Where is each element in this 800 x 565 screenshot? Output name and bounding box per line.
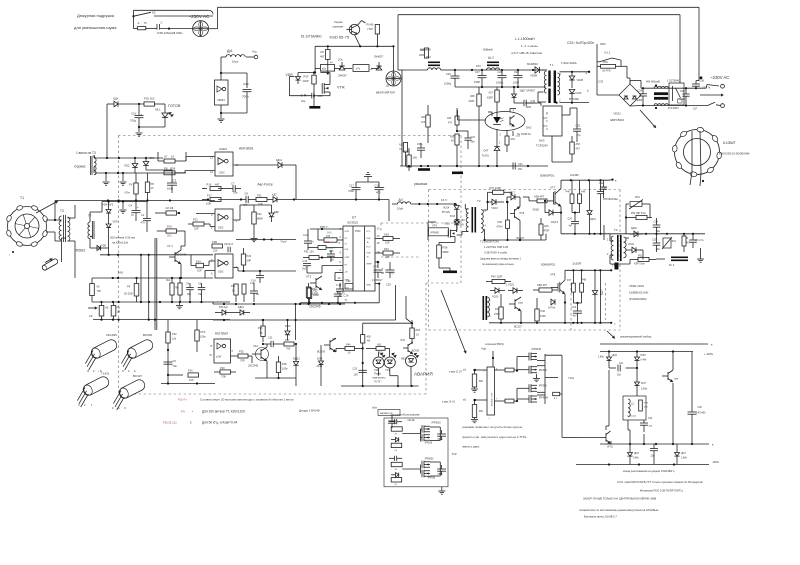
wire mains second bbox=[398, 14, 680, 16]
diode VD2 bbox=[124, 158, 138, 173]
label cap value bbox=[157, 31, 183, 35]
toroid leads bbox=[690, 172, 704, 186]
svg-text:JN400Т: JN400Т bbox=[338, 75, 347, 78]
svg-text:DIS: DIS bbox=[345, 249, 349, 251]
label TGR bbox=[569, 376, 575, 380]
svg-text:1 VD21: 1 VD21 bbox=[506, 284, 515, 287]
svg-text:Р13: Р13 bbox=[193, 218, 198, 222]
wire bbox=[338, 302, 340, 304]
wire bbox=[307, 266, 343, 274]
dashed box power left bbox=[428, 190, 430, 331]
resistor R20 K9 bbox=[399, 143, 408, 167]
svg-text:2SC945: 2SC945 bbox=[309, 305, 321, 309]
label 400-900mkF bbox=[646, 80, 660, 83]
label raskachka bbox=[414, 182, 427, 186]
dashed box power top bbox=[429, 189, 621, 191]
capacitor C16 bbox=[372, 265, 385, 283]
capacitor C17 bbox=[348, 182, 361, 200]
svg-text:VD14: VD14 bbox=[443, 207, 450, 210]
svg-text:Р32 1К2: Р32 1К2 bbox=[144, 97, 155, 101]
capacitor C27 bbox=[474, 70, 487, 87]
svg-text:Д: Д bbox=[546, 111, 548, 115]
svg-text:470Н: 470Н bbox=[497, 226, 503, 229]
zener VD4 8V1 bbox=[102, 202, 114, 222]
svg-text:L.1-1500мкН: L.1-1500мкН bbox=[515, 37, 535, 41]
note golovka bbox=[579, 508, 659, 512]
svg-text:220Р: 220Р bbox=[303, 79, 309, 83]
label ~230V AC bbox=[189, 14, 210, 19]
svg-text:VТ7: VТ7 bbox=[550, 186, 556, 190]
label 1 vitok na T3 bbox=[76, 151, 96, 155]
svg-text:470Р: 470Р bbox=[494, 313, 500, 316]
wire bbox=[401, 70, 403, 166]
svg-text:ТСР224У: ТСР224У bbox=[536, 144, 548, 148]
wire bbox=[538, 92, 546, 102]
wire bus17 bbox=[438, 487, 445, 494]
wire bbox=[621, 66, 630, 84]
label VD01 bbox=[629, 284, 648, 301]
switch ac2 bbox=[706, 102, 721, 105]
varistor 161V a bbox=[629, 196, 643, 209]
svg-text:ОЗ/3: ОЗ/3 bbox=[218, 271, 224, 274]
svg-text:нОм: нОм bbox=[372, 407, 377, 410]
svg-text:1М: 1М bbox=[117, 310, 121, 314]
wire bbox=[597, 44, 619, 95]
wire bbox=[465, 204, 468, 209]
svg-text:Р8: Р8 bbox=[151, 182, 155, 186]
svg-text:А20: А20 bbox=[399, 144, 404, 147]
svg-text:Зб: Зб bbox=[381, 271, 385, 275]
svg-text:Р34: Р34 bbox=[384, 247, 389, 251]
svg-text:ЮУ2: ЮУ2 bbox=[285, 325, 291, 328]
svg-text:10µН: 10µН bbox=[397, 207, 403, 211]
CT black bar TT bbox=[615, 263, 619, 270]
wire bbox=[282, 165, 296, 200]
transformer T3 out bbox=[607, 228, 626, 261]
svg-text:VT3: VT3 bbox=[306, 275, 312, 279]
svg-text:1б1V: 1б1V bbox=[635, 196, 641, 199]
note R29 30 C12 bbox=[163, 421, 238, 425]
svg-text:ВYV26: ВYV26 bbox=[442, 211, 450, 214]
wire rails ac bbox=[630, 81, 706, 107]
label C9 bbox=[224, 242, 234, 252]
mosfet m2b bbox=[517, 395, 549, 403]
resistor K3 bbox=[89, 301, 109, 320]
resistor s20d bbox=[391, 478, 402, 486]
mosfet n4 bbox=[422, 470, 436, 480]
resistor R55 bbox=[570, 136, 581, 160]
wire bbox=[196, 213, 215, 215]
dashed box control top bbox=[118, 135, 461, 137]
dashed box power right bbox=[619, 190, 621, 331]
svg-text:1А5: 1А5 bbox=[413, 157, 418, 160]
label 1.5K2-200A bbox=[561, 61, 577, 65]
svg-text:Р23: Р23 bbox=[247, 254, 252, 258]
wire bus3 bbox=[55, 199, 215, 201]
svg-text:1б0: 1б0 bbox=[518, 168, 523, 171]
resistor R58 220R bbox=[469, 87, 482, 167]
resistor R54 47k bbox=[421, 105, 430, 143]
resistor R28b 4R7 bbox=[523, 195, 551, 203]
label Aks-Force bbox=[258, 183, 273, 187]
ground bbox=[471, 389, 478, 392]
svg-text:КД30: КД30 bbox=[631, 227, 637, 230]
svg-text:40Г: 40Г bbox=[320, 55, 325, 59]
svg-text:А: А bbox=[138, 21, 140, 25]
IC U6 hot-start bbox=[210, 339, 234, 363]
earth arrow bbox=[700, 93, 724, 96]
capacitor C36 bbox=[679, 88, 690, 105]
svg-text:70К: 70К bbox=[286, 347, 291, 351]
transistor thermo bbox=[346, 21, 365, 35]
svg-text:+: + bbox=[137, 205, 139, 209]
terminal a bbox=[586, 71, 591, 75]
svg-text:А4б: А4б bbox=[544, 225, 549, 228]
wire vert155 bbox=[155, 238, 157, 330]
svg-text:Э: Э bbox=[87, 369, 89, 373]
wire bbox=[488, 112, 492, 116]
svg-text:Сб: Сб bbox=[173, 359, 177, 363]
capacitor C19 bbox=[417, 143, 425, 158]
svg-text:ВСб3б: ВСб3б bbox=[412, 350, 420, 353]
label C33 bbox=[567, 41, 595, 45]
diode KD23v bbox=[602, 289, 604, 295]
svg-text:Перви: Перви bbox=[374, 373, 382, 376]
svg-text:ВС327: ВС327 bbox=[133, 374, 142, 378]
dotted wires bbox=[605, 283, 607, 320]
svg-text:Для 50 кГц, и Кзап=0.44: Для 50 кГц, и Кзап=0.44 bbox=[202, 421, 238, 425]
svg-text:VT 1: VT 1 bbox=[167, 244, 173, 248]
svg-text:/Т15: /Т15 bbox=[519, 211, 525, 215]
svg-text:С33= 3х4Т0µ/4б0v: С33= 3х4Т0µ/4б0v bbox=[567, 41, 595, 45]
resistor R59 bbox=[597, 60, 621, 73]
svg-text:DA2: DA2 bbox=[526, 126, 532, 130]
svg-text:47б: 47б bbox=[448, 122, 453, 125]
resistor R49 bbox=[336, 344, 363, 355]
svg-text:Р10: Р10 bbox=[167, 225, 172, 229]
svg-text:+: + bbox=[141, 112, 143, 116]
svg-text:вместо двух: вместо двух bbox=[463, 444, 480, 448]
resistor R10 bbox=[160, 225, 185, 238]
diode VD7 bbox=[272, 193, 296, 203]
wire bbox=[266, 344, 268, 347]
svg-text:Р25: Р25 bbox=[239, 350, 244, 354]
note variant bbox=[372, 407, 400, 429]
svg-text:ГОТОВ: ГОТОВ bbox=[168, 104, 181, 108]
svg-text:Anti-Stick: Anti-Stick bbox=[239, 147, 254, 151]
svg-text:ГСА: ГСА bbox=[569, 376, 575, 380]
svg-text:1б: 1б bbox=[151, 186, 154, 190]
svg-text:U8034: U8034 bbox=[217, 98, 225, 102]
wire bus2 bbox=[95, 172, 185, 174]
transistor VT10 bbox=[400, 339, 420, 354]
svg-text:С37: С37 bbox=[693, 108, 698, 111]
dashed box control left bbox=[118, 136, 120, 395]
svg-text:~230V AC: ~230V AC bbox=[189, 14, 210, 19]
wire bbox=[392, 45, 394, 71]
svg-text:ВЕНТИЛЯТОР: ВЕНТИЛЯТОР bbox=[376, 90, 395, 94]
svg-text:L2=6. (2мкЧ,БЛХХ.БУБ,7Х7 Готы: L2=6. (2мкЧ,БЛХХ.БУБ,7Х7 Готыль приткано… bbox=[617, 480, 703, 484]
svg-text:хорошем 5МГф: хорошем 5МГф bbox=[485, 342, 505, 346]
diode sd2 bbox=[391, 473, 399, 477]
wire bbox=[356, 177, 379, 183]
svg-text:15бе: 15бе bbox=[417, 143, 423, 146]
toroid transformer T1 bbox=[6, 205, 48, 247]
resistor R45 bbox=[566, 180, 574, 212]
label 16 V bbox=[441, 198, 447, 202]
diode KD9 5v2 bbox=[215, 306, 232, 315]
resistor R38 680R bbox=[437, 243, 455, 269]
svg-text:10Р: 10Р bbox=[197, 269, 202, 273]
svg-text:Р22: Р22 bbox=[312, 287, 317, 291]
svg-text:С14: С14 bbox=[303, 259, 308, 263]
svg-text:/Т10: /Т10 bbox=[400, 339, 406, 342]
varistor VDR bbox=[286, 73, 301, 85]
svg-text:BYV26Е: BYV26Е bbox=[569, 97, 579, 101]
svg-text:CMP: CMP bbox=[345, 257, 350, 259]
capacitor C x2 bbox=[157, 21, 193, 30]
resistor R21 bbox=[252, 194, 273, 207]
wire bbox=[251, 356, 253, 363]
mosfet n3 bbox=[422, 459, 434, 469]
svg-text:УД07 UF4007: УД07 UF4007 bbox=[520, 90, 536, 93]
svg-text:С17: С17 bbox=[349, 184, 354, 188]
zener VD33 bbox=[598, 352, 617, 369]
svg-text:РС81ТА: РС81ТА bbox=[521, 132, 531, 136]
svg-text:VD2: VD2 bbox=[124, 164, 130, 168]
svg-text:V12: V12 bbox=[253, 344, 258, 348]
svg-text:С22: С22 bbox=[572, 306, 577, 309]
svg-text:КЭР 5.6м: КЭР 5.6м bbox=[634, 263, 645, 266]
svg-text:VDS1: VDS1 bbox=[614, 112, 622, 116]
wire bbox=[679, 15, 681, 83]
svg-text:Р47: Р47 bbox=[567, 279, 572, 282]
svg-text:200 витков 0.35 мм: 200 витков 0.35 мм bbox=[110, 236, 135, 240]
pencil bbox=[41, 258, 58, 271]
wire bbox=[672, 383, 674, 444]
resistor R22 180R bbox=[306, 283, 318, 303]
capacitor C30 bbox=[514, 100, 536, 109]
svg-text:моща рассеивания на диодах 150: моща рассеивания на диодах 150А38кГц bbox=[623, 469, 675, 473]
svg-text:4н7: 4н7 bbox=[573, 315, 578, 318]
svg-text:к рам 11 U7: к рам 11 U7 bbox=[449, 371, 463, 374]
diode VD18b bbox=[544, 200, 561, 224]
wire bbox=[599, 270, 601, 323]
zener KD15b 18V bbox=[450, 210, 465, 230]
svg-text:20-22Ф: 20-22Ф bbox=[124, 292, 133, 296]
svg-text:А58: А58 bbox=[470, 95, 475, 98]
wire bbox=[656, 258, 665, 260]
svg-text:Механизм ПОЛ 0.28-ПУЛЯТ.ЛИТ: Механизм ПОЛ 0.28-ПУЛЯТ.ЛИТЦ bbox=[640, 489, 683, 493]
svg-text:7µ400: 7µ400 bbox=[679, 99, 686, 101]
svg-text:А54: А54 bbox=[511, 138, 516, 141]
resistor s20a bbox=[391, 427, 402, 436]
label thermo bbox=[333, 20, 345, 28]
transformer T3 bbox=[59, 209, 70, 242]
label TL431 bbox=[98, 371, 110, 376]
resistor R8 bbox=[145, 173, 154, 200]
svg-text:18уТА: 18уТА bbox=[551, 221, 558, 224]
resistor Rg1 bbox=[495, 368, 519, 372]
wire bus bbox=[315, 34, 393, 73]
wire bbox=[628, 420, 644, 444]
svg-text:3 28V7КЗV 4 слойн.: 3 28V7КЗV 4 слойн. bbox=[484, 251, 508, 255]
wire bbox=[310, 228, 343, 230]
svg-text:VD4 8V1: VD4 8V1 bbox=[102, 203, 114, 207]
diode VD20 bbox=[490, 288, 505, 299]
svg-text:VТ8: VТ8 bbox=[550, 273, 556, 277]
svg-text:IN5819: IN5819 bbox=[75, 249, 86, 253]
svg-text:РV: РV bbox=[129, 183, 133, 187]
resistor R12 10k bbox=[166, 320, 177, 384]
opamp U1 LM324 bbox=[210, 147, 239, 176]
wire bbox=[335, 273, 343, 281]
wire bbox=[132, 10, 213, 28]
svg-text:150ЕВU02 (04): 150ЕВU02 (04) bbox=[629, 291, 648, 295]
svg-text:880б: 880б bbox=[257, 217, 263, 221]
igbt VT8 sym bbox=[551, 270, 566, 323]
svg-text:С20: С20 bbox=[386, 283, 391, 287]
capacitor cg1 bbox=[437, 430, 446, 441]
capacitor C29 bbox=[513, 70, 523, 87]
svg-text:Диоды 1N4148: Диоды 1N4148 bbox=[299, 409, 320, 413]
resistor R26 7b bbox=[258, 319, 265, 342]
wire bbox=[458, 110, 487, 120]
svg-text:Т2-2хК28Х72Х6: Т2-2хК28Х72Х6 bbox=[480, 240, 499, 244]
svg-text:/Д33: /Д33 bbox=[634, 453, 639, 455]
svg-text:ЗАЗОР ЛУЧШЕ ТОЛЬКО НА ЦЕНТРАЛЬ: ЗАЗОР ЛУЧШЕ ТОЛЬКО НА ЦЕНТРАЛЬНОМ КЕРНЕ~… bbox=[583, 497, 656, 501]
wire bbox=[545, 355, 578, 437]
svg-text:840: 840 bbox=[327, 231, 332, 235]
svg-text:70б: 70б bbox=[97, 289, 102, 293]
wire bbox=[398, 15, 402, 70]
capacitor C21c bbox=[0, 0, 1, 1]
svg-text:КД8: КД8 bbox=[274, 210, 279, 214]
svg-text:10Р: 10Р bbox=[385, 255, 390, 259]
label AVARIA bbox=[414, 372, 433, 377]
resistor R16 4K7 bbox=[202, 183, 228, 191]
svg-text:С2: С2 bbox=[141, 213, 145, 217]
inductor Dr4 out bbox=[669, 257, 688, 268]
switch ac1 bbox=[700, 76, 725, 88]
svg-text:Р2б: Р2б bbox=[258, 327, 263, 330]
wire gdr bbox=[537, 354, 545, 404]
svg-text:7µ400: 7µ400 bbox=[636, 99, 643, 102]
capacitor C4b bbox=[186, 283, 194, 303]
diode KD12a bbox=[285, 320, 291, 340]
svg-text:Ю1б: Ю1б bbox=[450, 215, 456, 218]
capacitor C30 out bbox=[688, 352, 707, 445]
capacitor C12 bbox=[303, 229, 315, 250]
svg-text:450v: 450v bbox=[600, 42, 606, 46]
svg-text:Р24: Р24 bbox=[231, 285, 236, 288]
arrow to toroid bbox=[640, 110, 656, 128]
svg-text:РУб: РУб bbox=[201, 330, 206, 334]
svg-text:Т1: Т1 bbox=[20, 196, 24, 200]
wire bbox=[0, 0, 1, 1]
capacitor C31 bbox=[0, 0, 1, 1]
svg-text:0.4бн: 0.4бн bbox=[641, 360, 648, 362]
svg-text:IR44СЕ_ТСР: IR44СЕ_ТСР bbox=[491, 392, 493, 406]
svg-text:Ли4: Ли4 bbox=[166, 279, 171, 282]
thyristor E bbox=[0, 0, 1, 1]
diode VD16 bbox=[486, 199, 504, 210]
wire mains top bbox=[209, 7, 699, 28]
svg-text:Р51: Р51 bbox=[638, 255, 643, 258]
label 2x0.68 bbox=[603, 198, 618, 201]
svg-text:79б: 79б bbox=[175, 287, 180, 290]
svg-text:VТб: VТб bbox=[518, 301, 523, 305]
wire bbox=[220, 92, 247, 118]
label T1 bbox=[20, 196, 24, 200]
svg-text:10µн: 10µн bbox=[232, 60, 239, 64]
svg-text:Р12: Р12 bbox=[172, 332, 177, 336]
wire bbox=[233, 164, 278, 166]
wire bbox=[698, 7, 700, 80]
resistor s20c bbox=[391, 462, 402, 471]
terminal Vcc bbox=[246, 50, 258, 59]
svg-text:73Ф: 73Ф bbox=[221, 375, 226, 379]
svg-text:VD1В: VD1В bbox=[533, 209, 540, 212]
svg-text:0.4Вт: 0.4Вт bbox=[633, 458, 640, 460]
svg-text:≈40С: ≈40С bbox=[317, 95, 323, 98]
svg-text:LM324: LM324 bbox=[219, 147, 227, 151]
svg-text:630Р: 630Р bbox=[487, 97, 493, 100]
wire bbox=[255, 361, 296, 379]
capacitor cs1 bbox=[389, 419, 402, 424]
wire gdr2 bbox=[545, 377, 558, 379]
label BC635 bbox=[143, 333, 152, 337]
wire bus5 bbox=[100, 254, 213, 256]
wire bbox=[640, 250, 643, 260]
transformer input bbox=[654, 84, 668, 109]
terminal m1 bbox=[449, 369, 487, 374]
label Servis bbox=[74, 165, 86, 169]
ground bbox=[120, 173, 127, 185]
svg-text:С7: С7 bbox=[231, 182, 235, 186]
inductor Dr1 bbox=[226, 49, 245, 64]
capacitor C6 bbox=[164, 359, 178, 368]
resistor R22 880k bbox=[252, 205, 264, 236]
svg-text:К40Х25Х10 М2000НМ: К40Х25Х10 М2000НМ bbox=[719, 152, 750, 156]
capacitor C29b bbox=[652, 234, 660, 253]
mosfet m1a bbox=[517, 353, 537, 371]
capacitor C41 bbox=[650, 444, 658, 464]
resistor R31 12b bbox=[303, 250, 343, 260]
svg-text:С27: С27 bbox=[475, 70, 480, 74]
svg-text:16 V: 16 V bbox=[441, 198, 447, 202]
svg-text:С42: С42 bbox=[648, 418, 653, 420]
capacitor C13 bbox=[327, 250, 335, 262]
wire bbox=[93, 167, 95, 174]
dashed box control right upper bbox=[460, 136, 462, 284]
label n4148 bbox=[408, 419, 442, 424]
inductor Dr2 bbox=[392, 198, 411, 211]
svg-text:РК: РК bbox=[321, 50, 325, 54]
resistor R24 bbox=[231, 284, 238, 302]
wire s2 bbox=[430, 427, 440, 441]
resistor R37 630R bbox=[487, 87, 499, 113]
svg-text:С33: С33 bbox=[598, 80, 603, 84]
svg-text:70Р: 70Р bbox=[240, 359, 245, 363]
resistor R53 bbox=[410, 320, 421, 344]
note raskachka2 bbox=[391, 412, 420, 416]
annotation arrow long bbox=[441, 290, 467, 354]
resistor s20b bbox=[391, 443, 402, 452]
svg-text:TL431: TL431 bbox=[101, 372, 110, 376]
svg-text:на К20х12х6: на К20х12х6 bbox=[112, 241, 129, 245]
svg-text:з: з bbox=[489, 418, 490, 420]
